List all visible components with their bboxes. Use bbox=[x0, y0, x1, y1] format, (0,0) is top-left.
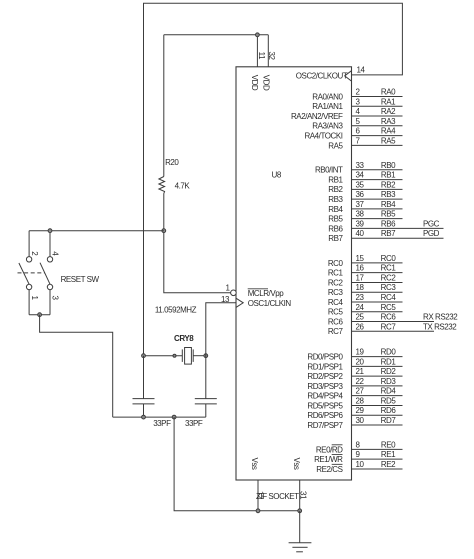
overline over MCLR bbox=[248, 288, 268, 290]
svg-text:9: 9 bbox=[356, 450, 361, 459]
svg-text:35: 35 bbox=[356, 180, 365, 189]
svg-text:RC5: RC5 bbox=[328, 308, 344, 317]
wire reset switch pin4 stub bbox=[49, 231, 51, 257]
pin 8 RE0 row bbox=[316, 440, 403, 454]
switch blade left bbox=[19, 263, 29, 284]
svg-text:2: 2 bbox=[356, 88, 361, 97]
pin 5 RA3 row bbox=[312, 117, 402, 131]
svg-text:3: 3 bbox=[356, 97, 361, 106]
pin 10 RE2 row bbox=[316, 460, 402, 474]
svg-text:RA0/AN0: RA0/AN0 bbox=[312, 92, 343, 101]
svg-text:RA2: RA2 bbox=[381, 107, 396, 116]
node rail-to-ground junction bbox=[172, 415, 176, 419]
svg-text:RC0: RC0 bbox=[328, 259, 344, 268]
svg-text:VDD: VDD bbox=[250, 75, 259, 91]
svg-text:RC2: RC2 bbox=[328, 278, 344, 287]
svg-text:31: 31 bbox=[299, 491, 308, 500]
pin 23 RC4 row bbox=[328, 293, 403, 307]
svg-text:RD7: RD7 bbox=[381, 416, 397, 425]
pin 16 RC1 row bbox=[328, 264, 403, 278]
node crystal right junction bbox=[204, 354, 208, 358]
IC U8 PIC microcontroller body bbox=[236, 67, 352, 480]
svg-text:25: 25 bbox=[356, 313, 365, 322]
svg-text:RE0/RD: RE0/RD bbox=[316, 445, 343, 454]
clock symbol OSC1 (pin 13) bbox=[236, 298, 243, 307]
switch SW terminal 4 circle bbox=[47, 257, 52, 262]
svg-text:29: 29 bbox=[356, 406, 365, 415]
switch blade right bbox=[40, 263, 50, 285]
svg-text:3: 3 bbox=[51, 296, 60, 301]
svg-text:RC1: RC1 bbox=[381, 264, 397, 273]
wire R20 top segment bbox=[163, 35, 165, 177]
svg-text:RD6/PSP6: RD6/PSP6 bbox=[307, 411, 343, 420]
resistor R20 zigzag bbox=[159, 177, 165, 194]
svg-text:RB6: RB6 bbox=[328, 224, 343, 233]
svg-text:RA5: RA5 bbox=[328, 141, 343, 150]
svg-text:RC4: RC4 bbox=[381, 293, 397, 302]
capacitor C-left bottom plate bbox=[133, 403, 155, 405]
svg-text:PGD: PGD bbox=[423, 229, 440, 238]
pin 36 RB3 row bbox=[328, 190, 402, 204]
svg-text:20: 20 bbox=[356, 357, 365, 366]
wire switch to ground rail bbox=[40, 315, 113, 417]
svg-text:RB0/INT: RB0/INT bbox=[315, 166, 343, 175]
svg-text:7: 7 bbox=[356, 136, 361, 145]
svg-text:1: 1 bbox=[226, 284, 231, 293]
svg-text:RE1: RE1 bbox=[381, 450, 396, 459]
svg-text:26: 26 bbox=[356, 322, 365, 331]
pin 25 RC6 row bbox=[328, 313, 458, 327]
pin 38 RB5 row bbox=[328, 210, 402, 224]
svg-text:RB4: RB4 bbox=[381, 200, 396, 209]
svg-text:4: 4 bbox=[51, 251, 60, 256]
pin 24 RC5 row bbox=[328, 303, 403, 317]
svg-text:22: 22 bbox=[356, 377, 365, 386]
svg-text:28: 28 bbox=[356, 396, 365, 405]
node Vss pin 31 junction bbox=[298, 509, 302, 513]
pin 28 RD5 row bbox=[307, 396, 402, 410]
svg-text:4: 4 bbox=[356, 107, 361, 116]
svg-text:RD4: RD4 bbox=[381, 387, 397, 396]
svg-text:RE1/WR: RE1/WR bbox=[314, 455, 343, 464]
svg-text:Vss: Vss bbox=[250, 458, 259, 470]
svg-text:RB6: RB6 bbox=[381, 219, 396, 228]
svg-text:37: 37 bbox=[356, 200, 365, 209]
svg-text:RE2/CS: RE2/CS bbox=[316, 465, 342, 474]
svg-text:RD4/PSP4: RD4/PSP4 bbox=[307, 392, 343, 401]
svg-text:11.0592MHZ: 11.0592MHZ bbox=[155, 305, 197, 314]
svg-text:RA4: RA4 bbox=[381, 127, 396, 136]
pin 35 RB2 row bbox=[328, 180, 402, 194]
node reset rail junction bbox=[48, 229, 52, 233]
svg-text:RD6: RD6 bbox=[381, 406, 397, 415]
svg-text:RD5/PSP5: RD5/PSP5 bbox=[307, 401, 343, 410]
svg-text:23: 23 bbox=[356, 293, 365, 302]
svg-text:33PF: 33PF bbox=[153, 419, 171, 428]
wire VDD pin 32 vertical bbox=[267, 35, 269, 67]
svg-text:RD0: RD0 bbox=[381, 348, 397, 357]
svg-text:VDD: VDD bbox=[262, 75, 271, 91]
svg-text:RD1/PSP1: RD1/PSP1 bbox=[307, 362, 343, 371]
svg-text:RB5: RB5 bbox=[328, 215, 343, 224]
node Vss pin 12 junction bbox=[256, 509, 260, 513]
svg-text:RA4/TOCKI: RA4/TOCKI bbox=[304, 131, 342, 140]
svg-text:11: 11 bbox=[257, 52, 266, 60]
clock symbol OSC2 (pin 14) bbox=[345, 71, 352, 81]
svg-text:33PF: 33PF bbox=[185, 419, 203, 428]
svg-text:RC7: RC7 bbox=[328, 327, 344, 336]
svg-text:TX RS232: TX RS232 bbox=[423, 322, 457, 331]
svg-text:RB1: RB1 bbox=[328, 175, 343, 184]
svg-text:27: 27 bbox=[356, 387, 365, 396]
svg-text:34: 34 bbox=[356, 171, 365, 180]
pin 33 RB0 row bbox=[315, 161, 403, 175]
wire Vss pin 31 vertical bbox=[299, 480, 301, 511]
svg-text:RE0: RE0 bbox=[381, 440, 396, 449]
svg-text:RC1: RC1 bbox=[328, 269, 344, 278]
pin 7 RA5 row bbox=[328, 136, 402, 150]
node crystal left junction bbox=[142, 354, 146, 358]
node VDD rail junction bbox=[256, 33, 260, 37]
wire switch pin3 lower stub bbox=[49, 290, 51, 315]
node R20/reset junction bbox=[162, 229, 166, 233]
svg-text:4.7K: 4.7K bbox=[175, 182, 191, 191]
svg-text:RB5: RB5 bbox=[381, 210, 396, 219]
svg-text:RE2: RE2 bbox=[381, 460, 396, 469]
svg-text:RB4: RB4 bbox=[328, 205, 343, 214]
wire Vss pin 12 vertical bbox=[257, 480, 259, 511]
pin 30 RD7 row bbox=[307, 416, 402, 430]
pin 2 RA0 row bbox=[312, 88, 402, 102]
svg-text:RA2/AN2/VREF: RA2/AN2/VREF bbox=[291, 112, 343, 121]
wire C-right lower lead bbox=[205, 404, 207, 417]
svg-text:RA5: RA5 bbox=[381, 136, 396, 145]
pin 22 RD3 row bbox=[307, 377, 402, 391]
node left cap rail junction bbox=[142, 415, 146, 419]
svg-text:RA0: RA0 bbox=[381, 88, 396, 97]
crystal CRY8 body bbox=[185, 348, 192, 365]
svg-text:CRY8: CRY8 bbox=[174, 334, 194, 343]
ground symbol bbox=[289, 542, 312, 544]
svg-text:RD3/PSP3: RD3/PSP3 bbox=[307, 382, 343, 391]
svg-text:R20: R20 bbox=[165, 158, 179, 167]
svg-text:ZIF SOCKET: ZIF SOCKET bbox=[256, 492, 299, 501]
svg-text:RC5: RC5 bbox=[381, 303, 397, 312]
svg-text:RB0: RB0 bbox=[381, 161, 396, 170]
wire C-left lower lead bbox=[143, 404, 145, 417]
pin 9 RE1 row bbox=[314, 450, 402, 464]
wire ground run down and right bbox=[174, 417, 300, 511]
svg-text:RA3: RA3 bbox=[381, 117, 396, 126]
MCLR inversion bubble pin 1 bbox=[231, 290, 237, 296]
switch linkage dashed line bbox=[18, 272, 45, 274]
svg-text:RD7/PSP7: RD7/PSP7 bbox=[307, 421, 343, 430]
pin 17 RC2 row bbox=[328, 273, 403, 287]
svg-text:6: 6 bbox=[356, 127, 361, 136]
pin 26 RC7 row bbox=[328, 322, 457, 336]
pin 3 RA1 row bbox=[312, 97, 402, 111]
svg-text:MCLR/Vpp: MCLR/Vpp bbox=[248, 289, 285, 298]
svg-text:RC7: RC7 bbox=[381, 322, 397, 331]
svg-text:8: 8 bbox=[356, 440, 361, 449]
svg-text:33: 33 bbox=[356, 161, 365, 170]
svg-text:RB3: RB3 bbox=[328, 195, 343, 204]
switch SW terminal 3 circle bbox=[47, 284, 52, 289]
svg-text:RB7: RB7 bbox=[381, 229, 396, 238]
crystal CRY8 right plate bbox=[192, 349, 194, 362]
svg-text:OSC2/CLKOUT: OSC2/CLKOUT bbox=[296, 72, 348, 81]
switch SW terminal 2 circle bbox=[26, 257, 31, 262]
svg-text:RD0/PSP0: RD0/PSP0 bbox=[307, 353, 343, 362]
svg-text:RD2: RD2 bbox=[381, 367, 397, 376]
pin 18 RC3 row bbox=[328, 283, 403, 297]
svg-text:RX RS232: RX RS232 bbox=[423, 313, 458, 322]
wire reset switch pin2 stub bbox=[28, 231, 30, 257]
svg-text:38: 38 bbox=[356, 210, 365, 219]
svg-text:RC6: RC6 bbox=[328, 317, 344, 326]
svg-text:19: 19 bbox=[356, 348, 365, 357]
svg-text:RD2/PSP2: RD2/PSP2 bbox=[307, 372, 343, 381]
svg-text:21: 21 bbox=[356, 367, 365, 376]
wire reset rail horizontal bbox=[29, 230, 164, 232]
svg-text:RB2: RB2 bbox=[381, 180, 396, 189]
svg-text:RA1/AN1: RA1/AN1 bbox=[312, 102, 343, 111]
svg-text:Vss: Vss bbox=[292, 458, 301, 470]
wire crystal left lead bbox=[144, 355, 183, 357]
wire VDD pin 11 vertical bbox=[256, 35, 258, 67]
wire OSC1 net from pin 13 bbox=[206, 303, 236, 399]
svg-text:RC0: RC0 bbox=[381, 254, 397, 263]
wire OSC2 net: pin14 to top-left loop bbox=[144, 3, 403, 356]
pin 6 RA4 row bbox=[304, 127, 402, 141]
svg-text:5: 5 bbox=[356, 117, 361, 126]
svg-text:RB3: RB3 bbox=[381, 190, 396, 199]
svg-text:RC3: RC3 bbox=[381, 283, 397, 292]
pin 34 RB1 row bbox=[328, 171, 402, 185]
wire OSC2 vertical to left capacitor bbox=[143, 356, 145, 399]
svg-text:RC3: RC3 bbox=[328, 288, 344, 297]
svg-text:RD5: RD5 bbox=[381, 396, 397, 405]
capacitor C-left top plate bbox=[133, 398, 155, 400]
crystal CRY8 left plate bbox=[181, 349, 183, 362]
svg-text:36: 36 bbox=[356, 190, 365, 199]
svg-text:PGC: PGC bbox=[423, 219, 440, 228]
svg-text:RA3/AN3: RA3/AN3 bbox=[312, 122, 343, 131]
svg-text:18: 18 bbox=[356, 283, 365, 292]
node crystal lead dot bbox=[173, 354, 176, 357]
node switch bottom junction bbox=[38, 313, 42, 317]
svg-text:40: 40 bbox=[356, 229, 365, 238]
pin 39 RB6 row bbox=[328, 219, 443, 233]
wire R20 bottom segment to MCLR bbox=[164, 194, 231, 293]
pin 21 RD2 row bbox=[307, 367, 402, 381]
svg-text:U8: U8 bbox=[272, 170, 282, 179]
wire VDD rail horizontal bbox=[164, 34, 268, 36]
pin 37 RB4 row bbox=[328, 200, 402, 214]
svg-text:RD3: RD3 bbox=[381, 377, 397, 386]
svg-text:RC2: RC2 bbox=[381, 273, 397, 282]
svg-text:30: 30 bbox=[356, 416, 365, 425]
svg-text:16: 16 bbox=[356, 264, 365, 273]
svg-text:RB1: RB1 bbox=[381, 171, 396, 180]
pin 29 RD6 row bbox=[307, 406, 402, 420]
pin 27 RD4 row bbox=[307, 387, 402, 401]
svg-text:RESET SW: RESET SW bbox=[61, 275, 100, 284]
svg-text:1: 1 bbox=[30, 296, 39, 301]
svg-text:10: 10 bbox=[356, 460, 365, 469]
svg-text:OSC1/CLKIN: OSC1/CLKIN bbox=[248, 299, 292, 308]
pin 20 RD1 row bbox=[307, 357, 402, 371]
switch SW terminal 1 circle bbox=[26, 284, 31, 289]
wire capacitor bottom rail bbox=[113, 416, 206, 418]
pin 15 RC0 row bbox=[328, 254, 403, 268]
wire switch pin1 lower stub bbox=[28, 290, 30, 315]
wire switch bottom bar bbox=[29, 314, 50, 316]
svg-text:RD1: RD1 bbox=[381, 357, 397, 366]
svg-text:17: 17 bbox=[356, 273, 365, 282]
svg-text:RB2: RB2 bbox=[328, 185, 343, 194]
capacitor C-right bottom plate bbox=[195, 403, 217, 405]
pin 19 RD0 row bbox=[307, 348, 402, 362]
wire crystal right lead bbox=[193, 355, 206, 357]
capacitor C-right top plate bbox=[195, 398, 217, 400]
svg-text:RA1: RA1 bbox=[381, 97, 396, 106]
wire to ground symbol bbox=[299, 511, 301, 543]
svg-text:32: 32 bbox=[267, 52, 276, 61]
svg-text:2: 2 bbox=[30, 251, 39, 256]
svg-text:RC6: RC6 bbox=[381, 313, 397, 322]
svg-text:RC4: RC4 bbox=[328, 298, 344, 307]
svg-text:24: 24 bbox=[356, 303, 365, 312]
pin 40 RB7 row bbox=[328, 229, 443, 243]
svg-text:RB7: RB7 bbox=[328, 234, 343, 243]
svg-text:14: 14 bbox=[357, 66, 366, 75]
svg-text:15: 15 bbox=[356, 254, 365, 263]
pin 4 RA2 row bbox=[291, 107, 403, 121]
svg-text:39: 39 bbox=[356, 219, 365, 228]
